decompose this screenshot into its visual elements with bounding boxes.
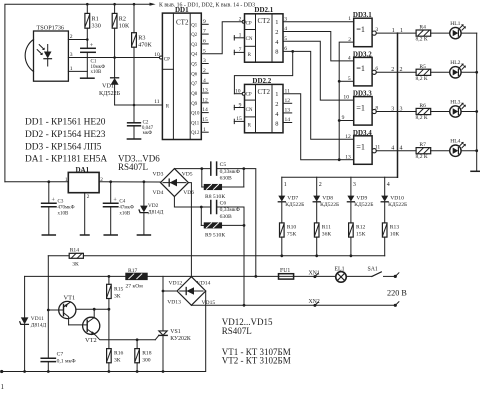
junction C5 R8 right <box>242 167 245 170</box>
counter DD1 <box>162 6 201 140</box>
ground at C3 <box>42 234 55 236</box>
svg-text:VD9: VD9 <box>356 195 367 201</box>
svg-text:C4: C4 <box>119 199 125 204</box>
resistor R4 <box>416 25 450 43</box>
svg-text:36К: 36К <box>322 231 332 237</box>
junction HL4 to rail <box>475 149 478 152</box>
wire R14 to VT1 base and C7 <box>47 256 49 358</box>
wire XN2 line <box>191 304 395 306</box>
wire bottom common rail <box>2 291 206 372</box>
svg-text:0,33мкФ: 0,33мкФ <box>220 207 241 213</box>
label VT types <box>222 347 291 366</box>
junction pin3/R2/VD1 <box>113 56 116 59</box>
svg-text:R4: R4 <box>419 25 426 31</box>
ground at lamp rail <box>471 170 480 172</box>
svg-text:VD11: VD11 <box>31 316 44 322</box>
svg-text:0,1 мкФ: 0,1 мкФ <box>57 358 77 364</box>
XOR gate DD3.2 <box>353 50 376 86</box>
svg-text:КД522Б: КД522Б <box>388 202 407 208</box>
wire C5 node to mains line <box>244 169 256 277</box>
svg-text:DD2.1: DD2.1 <box>254 6 273 14</box>
svg-text:CT2: CT2 <box>176 19 189 27</box>
wire DD2.2 pin14 stub <box>283 122 292 124</box>
svg-text:VD14: VD14 <box>197 280 211 286</box>
diode VD1 КД522Б <box>99 58 121 106</box>
junction VS1 cathode at bottom rail <box>162 370 165 373</box>
svg-text:11: 11 <box>375 145 381 151</box>
resistor R6 <box>416 103 450 121</box>
svg-text:VD12: VD12 <box>169 280 183 286</box>
svg-text:HL2: HL2 <box>450 60 460 66</box>
node rail left terminal <box>0 370 3 373</box>
svg-text:6: 6 <box>284 46 287 52</box>
svg-text:1: 1 <box>284 182 287 188</box>
junction DD2.1 pin6 branch <box>291 50 294 53</box>
junction R3 top <box>133 3 136 6</box>
svg-text:2: 2 <box>275 101 278 108</box>
svg-text:10К: 10К <box>119 23 130 30</box>
svg-text:КД522Б: КД522Б <box>99 90 121 97</box>
svg-text:Q6: Q6 <box>191 72 197 77</box>
connector XN1 <box>309 270 320 278</box>
resistor R8 <box>202 169 244 200</box>
diode VD10 КД522Б <box>381 177 407 223</box>
wire net DD2.2 pin11 to DD3 second inputs <box>283 42 354 160</box>
node channel numbers 3 3 <box>391 106 402 112</box>
svg-text:8,2 К: 8,2 К <box>416 76 428 82</box>
wire DD3.4 output row 4 <box>376 150 416 152</box>
ground at C4 <box>104 234 117 236</box>
fuse FU1 <box>279 268 294 279</box>
svg-text:DD3 - КР1564 ЛП5: DD3 - КР1564 ЛП5 <box>25 143 102 153</box>
resistor R14 <box>69 247 83 267</box>
wire VD1 to DD1 R pin11 <box>115 104 163 106</box>
wire bridge top to C5 <box>174 168 210 170</box>
svg-text:К выв. 16 - DD1, DD2, К выв. 1: К выв. 16 - DD1, DD2, К выв. 14 - DD3 <box>159 2 255 8</box>
wire to lower bridge left vertex <box>163 290 177 292</box>
svg-text:CP: CP <box>246 92 252 97</box>
svg-text:4: 4 <box>387 182 390 188</box>
svg-text:8: 8 <box>275 49 278 56</box>
svg-text:R10: R10 <box>287 224 297 230</box>
svg-text:8: 8 <box>375 105 378 111</box>
junction net11 at DD3.3 input 9 <box>338 119 341 122</box>
resistor R16 <box>107 349 124 372</box>
svg-text:1: 1 <box>1 383 5 391</box>
svg-text:1: 1 <box>275 19 278 26</box>
svg-text:Д814Д: Д814Д <box>31 323 47 329</box>
svg-text:КУ202К: КУ202К <box>170 336 191 342</box>
svg-text:DA1 - КР1181 ЕН5А: DA1 - КР1181 ЕН5А <box>25 155 107 165</box>
svg-text:1: 1 <box>65 177 68 183</box>
label IC list <box>25 118 107 165</box>
wire bridge bottom to C6 <box>174 197 210 208</box>
capacitor C2 <box>128 121 154 140</box>
wire control supply line <box>25 275 279 277</box>
svg-text:10мкФ: 10мкФ <box>91 65 106 70</box>
svg-text:R3: R3 <box>138 35 145 42</box>
capacitor C3 <box>42 182 75 235</box>
svg-text:1: 1 <box>348 16 351 22</box>
capacitor C7 <box>41 352 76 372</box>
svg-text:КД522Б: КД522Б <box>320 202 339 208</box>
svg-text:КД522Б: КД522Б <box>354 202 373 208</box>
capacitor C4 <box>104 182 134 235</box>
svg-text:CT2: CT2 <box>258 88 271 96</box>
svg-text:VD6: VD6 <box>183 190 194 196</box>
junction VD2 top <box>143 180 146 183</box>
junction R16 at bottom rail <box>108 370 111 373</box>
svg-text:DD2.2: DD2.2 <box>252 77 271 85</box>
svg-text:R16: R16 <box>114 351 124 357</box>
resistor R3 <box>132 4 153 123</box>
wire bridge right to lower bridge <box>188 183 191 277</box>
svg-text:R17: R17 <box>128 268 138 274</box>
svg-text:0,047: 0,047 <box>142 126 154 131</box>
svg-text:VD13: VD13 <box>167 300 181 306</box>
svg-text:VD10: VD10 <box>390 195 404 201</box>
transistor VT1 КТ3107БМ <box>48 295 76 325</box>
resistor R10 <box>280 223 297 256</box>
svg-text:=1: =1 <box>356 143 365 152</box>
svg-text:470К: 470К <box>138 42 152 49</box>
wire DD2.2 pin12 stub <box>283 102 292 104</box>
svg-text:C3: C3 <box>58 199 64 204</box>
IR receiver U1 TSOP1736 <box>25 25 68 82</box>
LED HL4 <box>450 139 477 157</box>
svg-text:9: 9 <box>342 115 345 121</box>
svg-text:CP: CP <box>246 22 252 27</box>
svg-text:2: 2 <box>87 194 90 200</box>
svg-text:мкФ: мкФ <box>143 131 153 136</box>
wire DA1 input line <box>5 181 68 183</box>
label VD12 type <box>222 317 273 336</box>
svg-text:R15: R15 <box>114 286 124 292</box>
wire net DD2.1 pin6 to DD3.4 input 12 <box>283 51 354 139</box>
resistor R5 <box>416 64 450 82</box>
ground at DA1 <box>81 234 90 236</box>
svg-text:VS1: VS1 <box>170 329 180 335</box>
junction C6 branch at XN2 line <box>243 304 246 307</box>
capacitor C1 <box>81 40 105 79</box>
svg-text:VT1: VT1 <box>64 295 76 302</box>
wire DD3.2 output row 2 <box>376 71 416 73</box>
wire FU1 to XN1 <box>294 275 336 277</box>
diode VD7 КД522Б <box>278 177 304 223</box>
junction pin2 node <box>86 38 89 41</box>
svg-text:VD4: VD4 <box>153 190 164 196</box>
transistor VT2 КТ3102БМ <box>69 309 156 344</box>
counter DD2.1 <box>245 6 284 62</box>
svg-text:КД522Б: КД522Б <box>285 202 304 208</box>
svg-text:DD2 - КР1564 НЕ23: DD2 - КР1564 НЕ23 <box>25 130 106 140</box>
wire DD2.2 pin13 stub <box>283 112 292 114</box>
junction R18 at bottom rail <box>136 370 139 373</box>
junction net11 at DD3.4 input 13 <box>338 158 341 161</box>
junction R15 top at supply line <box>108 275 111 278</box>
resistor R9 <box>201 207 244 238</box>
resistor R15 <box>107 276 124 348</box>
svg-text:3: 3 <box>353 182 356 188</box>
junction HL3 to rail <box>475 110 478 113</box>
svg-text:VD8: VD8 <box>322 195 333 201</box>
svg-text:х10В: х10В <box>91 70 103 75</box>
svg-text:470мкФ: 470мкФ <box>58 205 75 210</box>
svg-text:R18: R18 <box>142 351 152 357</box>
junction R18 top <box>136 338 139 341</box>
svg-text:х16В: х16В <box>119 211 130 216</box>
svg-text:Q10: Q10 <box>191 112 200 117</box>
svg-text:+: + <box>90 42 94 49</box>
junction R10 to sum rail <box>280 254 283 257</box>
inversion bubble DD2.2 CP <box>242 92 245 95</box>
label VD3...VD6 type <box>118 154 160 173</box>
svg-text:VT2 - КТ 3102БМ: VT2 - КТ 3102БМ <box>222 356 291 366</box>
svg-text:Q4: Q4 <box>191 53 197 58</box>
diode VD8 КД522Б <box>313 177 339 223</box>
wire DD1 output stubs <box>201 24 208 132</box>
pin 7 DD2.1 R tie <box>234 47 244 54</box>
svg-text:3: 3 <box>391 106 394 112</box>
switch SA1 <box>346 266 394 276</box>
svg-text:6: 6 <box>375 66 378 72</box>
svg-text:R2: R2 <box>119 16 126 23</box>
svg-text:DD1 - КР1561 НЕ20: DD1 - КР1561 НЕ20 <box>25 118 106 128</box>
voltage regulator DA1 <box>65 166 103 235</box>
svg-text:=1: =1 <box>356 64 365 73</box>
capacitor C6 <box>211 200 244 220</box>
svg-text:R5: R5 <box>419 64 426 70</box>
svg-text:8,2 К: 8,2 К <box>416 154 428 160</box>
junction C5 R8 left <box>200 167 203 170</box>
svg-text:TSOP1736: TSOP1736 <box>37 25 65 32</box>
svg-text:4: 4 <box>348 55 351 61</box>
junction R12 to sum rail <box>350 254 353 257</box>
junction R3/C2 on pin11 wire <box>133 104 136 107</box>
zener VD2 Д814Д <box>139 182 164 235</box>
svg-text:VD3: VD3 <box>153 171 164 177</box>
svg-text:1: 1 <box>275 91 278 98</box>
svg-text:7: 7 <box>239 47 242 53</box>
svg-text:1: 1 <box>392 28 395 34</box>
wire feedback riser from row1 to divider rail <box>397 33 399 177</box>
svg-text:R13: R13 <box>390 224 400 230</box>
inversion bubble DD2.1 CP <box>242 20 245 23</box>
svg-text:RS407L: RS407L <box>118 162 148 172</box>
junction HL2 to rail <box>475 71 478 74</box>
junction VT2 collector node <box>93 308 96 311</box>
svg-text:75К: 75К <box>287 231 297 237</box>
resistor R12 <box>349 223 366 256</box>
svg-text:3: 3 <box>375 27 378 33</box>
svg-text:RS407L: RS407L <box>222 326 252 336</box>
wire net DD2.1 pin4 to DD3.2 input 4 <box>283 32 354 61</box>
wire DD2.1 pin6 to DD2.2 CP <box>234 93 242 95</box>
svg-text:VD2: VD2 <box>148 203 159 209</box>
node power arrow <box>150 3 156 6</box>
pin 15 DD2.2 R tie <box>234 116 244 123</box>
capacitor C5 <box>211 162 244 182</box>
junction VD11 at bottom rail <box>23 370 26 373</box>
svg-text:R9 510К: R9 510К <box>205 232 225 238</box>
wire DD3.1 output row 1 <box>376 32 416 34</box>
bridge rectifier VD12-VD15 <box>167 277 215 306</box>
resistor R11 <box>314 223 331 256</box>
node channel numbers 1 1 <box>392 28 403 34</box>
svg-text:13: 13 <box>345 154 351 160</box>
wire U1 pin1 to ground <box>68 70 87 72</box>
wire VT1 collector to comparator node <box>76 308 109 310</box>
junction R11 to sum rail <box>315 254 318 257</box>
svg-text:9: 9 <box>239 102 242 108</box>
svg-text:1: 1 <box>400 28 403 34</box>
svg-text:15К: 15К <box>356 231 366 237</box>
junction R1 top <box>86 3 89 6</box>
junction C7 at bottom rail <box>47 370 50 373</box>
svg-text:8: 8 <box>275 121 278 128</box>
junction VS1 anode to bridge left <box>162 290 165 293</box>
wire top power rail <box>5 4 151 182</box>
svg-text:2: 2 <box>348 37 351 43</box>
svg-text:10К: 10К <box>390 231 400 237</box>
svg-text:VT2: VT2 <box>85 337 97 344</box>
counter DD2.2 <box>245 77 284 133</box>
resistor R7 <box>416 142 450 160</box>
resistor R18 <box>135 340 152 372</box>
svg-text:HL1: HL1 <box>450 21 460 27</box>
inversion bubble DD1 CP <box>160 56 163 59</box>
svg-text:CT2: CT2 <box>258 17 271 25</box>
svg-text:CP: CP <box>164 57 170 62</box>
svg-text:R7: R7 <box>419 142 426 148</box>
svg-text:х10В: х10В <box>58 211 70 216</box>
svg-text:2: 2 <box>239 16 242 22</box>
XOR gate DD3.4 <box>353 129 376 165</box>
node channel numbers 2 2 <box>391 67 402 73</box>
svg-text:2: 2 <box>275 29 278 36</box>
svg-text:Q12: Q12 <box>191 131 200 136</box>
DD1 output Q labels and pin stubs <box>191 23 200 136</box>
svg-text:VD5: VD5 <box>182 171 193 177</box>
wire DAC summing rail <box>48 255 384 257</box>
svg-text:Q7: Q7 <box>191 82 197 87</box>
wire divider top rail <box>282 176 398 178</box>
zener VD11 Д814Д <box>20 276 47 371</box>
svg-text:C6: C6 <box>220 200 227 206</box>
svg-text:C2: C2 <box>143 121 149 126</box>
svg-text:11: 11 <box>154 99 160 105</box>
svg-text:630В: 630В <box>220 176 232 182</box>
svg-text:3: 3 <box>400 106 403 112</box>
svg-text:8,2 К: 8,2 К <box>416 115 428 121</box>
svg-text:HL3: HL3 <box>450 99 460 105</box>
gate input pin labels DD3 <box>342 16 352 160</box>
svg-text:8,2 К: 8,2 К <box>416 37 428 43</box>
svg-text:5: 5 <box>348 76 351 82</box>
LED HL1 <box>450 21 477 39</box>
svg-text:Q5: Q5 <box>191 63 197 68</box>
ground at C2 <box>127 138 140 140</box>
diode VD9 КД522Б <box>347 177 373 223</box>
svg-text:10: 10 <box>343 95 349 101</box>
svg-text:2: 2 <box>400 67 403 73</box>
svg-text:4: 4 <box>400 146 403 152</box>
resistor R2 <box>112 4 130 57</box>
svg-text:C5: C5 <box>220 162 227 168</box>
bridge rectifier VD3-VD6 <box>153 169 195 197</box>
junction C3 top <box>47 180 50 183</box>
svg-text:CN: CN <box>246 37 253 42</box>
svg-text:Q1: Q1 <box>191 23 197 28</box>
node mains terminal top <box>394 273 399 278</box>
svg-text:Q2: Q2 <box>191 33 197 38</box>
svg-text:1: 1 <box>239 33 242 39</box>
junction R2 top <box>113 3 116 6</box>
svg-text:R14: R14 <box>70 247 80 253</box>
svg-text:220 В: 220 В <box>387 288 407 297</box>
svg-text:R11: R11 <box>322 224 331 230</box>
svg-text:R6: R6 <box>419 103 426 109</box>
junction net11 at DD3.2 input 5 <box>338 80 341 83</box>
svg-text:VD7: VD7 <box>287 195 298 201</box>
connector XN2 <box>309 299 320 307</box>
thyristor VS1 КУ202К <box>155 329 191 372</box>
wire net DD2.1 pin5 to DD3.3 input 10 <box>283 41 354 100</box>
junction C6 R9 right <box>243 224 246 227</box>
wire DD3.3 output row 3 <box>376 111 416 113</box>
svg-text:3К: 3К <box>72 261 79 267</box>
pin 1 DD2.1 CN tie <box>234 33 244 40</box>
svg-text:=1: =1 <box>356 25 365 34</box>
svg-text:27 кОм: 27 кОм <box>126 283 144 289</box>
svg-text:3К: 3К <box>114 293 121 299</box>
svg-text:SA1: SA1 <box>368 266 378 272</box>
svg-text:C1: C1 <box>91 60 97 65</box>
wire U1 pin3 to DD1 CP <box>68 57 159 59</box>
XOR gate DD3.3 <box>353 90 376 126</box>
svg-text:HL4: HL4 <box>450 139 460 145</box>
svg-text:Q8: Q8 <box>191 92 197 97</box>
junction C4 top <box>109 180 112 183</box>
ground at C1 <box>81 77 94 79</box>
svg-text:2: 2 <box>319 182 322 188</box>
wire lamp common rail <box>476 33 478 171</box>
svg-text:R12: R12 <box>356 224 366 230</box>
wire C6 node down to XN2 line <box>243 207 245 305</box>
junction VT1 base tap <box>47 309 50 312</box>
svg-text:C7: C7 <box>57 352 64 358</box>
junction R15 bottom node <box>108 308 111 311</box>
svg-text:Q11: Q11 <box>191 121 200 126</box>
svg-text:CN: CN <box>246 108 253 113</box>
svg-text:Q9: Q9 <box>191 102 197 107</box>
svg-text:4: 4 <box>391 146 394 152</box>
svg-text:Д814Д: Д814Д <box>148 209 164 215</box>
svg-text:47мкФ: 47мкФ <box>119 205 134 210</box>
wire DA1 output line <box>99 181 160 183</box>
node mains terminal bottom <box>394 302 399 307</box>
junction at FU1 line <box>254 275 257 278</box>
svg-text:0,33мкФ: 0,33мкФ <box>220 169 241 175</box>
svg-text:Q3: Q3 <box>191 43 197 48</box>
wire supply line to VS1 anode <box>162 276 164 331</box>
svg-text:2: 2 <box>391 67 394 73</box>
svg-text:12: 12 <box>345 134 351 140</box>
svg-text:VD1: VD1 <box>102 83 114 90</box>
svg-text:=1: =1 <box>356 103 365 112</box>
svg-text:R8 510К: R8 510К <box>205 194 225 200</box>
wire net DD2.1 pin3 to DD3.1 input 1 <box>283 21 354 23</box>
